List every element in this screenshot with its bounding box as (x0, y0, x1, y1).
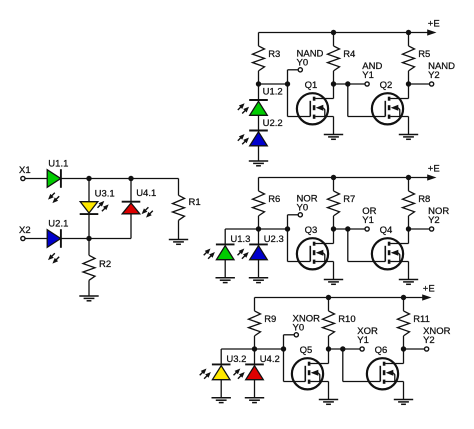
svg-text:Y1: Y1 (362, 70, 374, 81)
svg-text:Y1: Y1 (362, 215, 374, 226)
svg-text:U2.1: U2.1 (48, 219, 68, 230)
svg-text:R3: R3 (268, 49, 280, 60)
svg-text:Y1: Y1 (357, 335, 369, 346)
svg-text:Y0: Y0 (297, 57, 309, 68)
svg-text:U2.3: U2.3 (264, 234, 284, 245)
svg-text:Y2: Y2 (428, 70, 440, 81)
svg-text:R5: R5 (418, 49, 430, 60)
svg-text:U4.2: U4.2 (260, 354, 280, 365)
svg-text:R4: R4 (343, 49, 355, 60)
svg-text:R6: R6 (268, 194, 280, 205)
svg-text:R8: R8 (418, 194, 430, 205)
svg-text:U1.2: U1.2 (263, 87, 283, 98)
svg-text:R9: R9 (264, 314, 276, 325)
svg-text:U3.1: U3.1 (95, 188, 115, 199)
svg-text:R2: R2 (99, 259, 111, 270)
svg-text:Y2: Y2 (428, 215, 440, 226)
svg-text:R11: R11 (413, 314, 430, 325)
svg-text:Q3: Q3 (305, 225, 318, 236)
svg-text:Q5: Q5 (300, 345, 313, 356)
svg-text:R1: R1 (189, 197, 201, 208)
svg-text:Y0: Y0 (297, 202, 309, 213)
svg-text:Q2: Q2 (380, 80, 393, 91)
svg-text:Y0: Y0 (293, 322, 305, 333)
svg-text:+E: +E (423, 283, 435, 294)
svg-text:X1: X1 (19, 165, 31, 176)
svg-text:Q1: Q1 (305, 80, 318, 91)
svg-text:X2: X2 (19, 225, 31, 236)
svg-text:+E: +E (428, 18, 440, 29)
svg-text:Y2: Y2 (423, 335, 435, 346)
svg-text:U2.2: U2.2 (263, 118, 283, 129)
svg-text:U3.2: U3.2 (226, 354, 246, 365)
svg-text:Q4: Q4 (380, 225, 393, 236)
svg-text:Q6: Q6 (375, 345, 388, 356)
svg-text:R7: R7 (343, 194, 355, 205)
svg-text:U1.1: U1.1 (48, 158, 68, 169)
svg-text:U1.3: U1.3 (230, 234, 250, 245)
svg-text:U4.1: U4.1 (136, 188, 156, 199)
svg-text:+E: +E (428, 163, 440, 174)
svg-text:R10: R10 (338, 314, 355, 325)
